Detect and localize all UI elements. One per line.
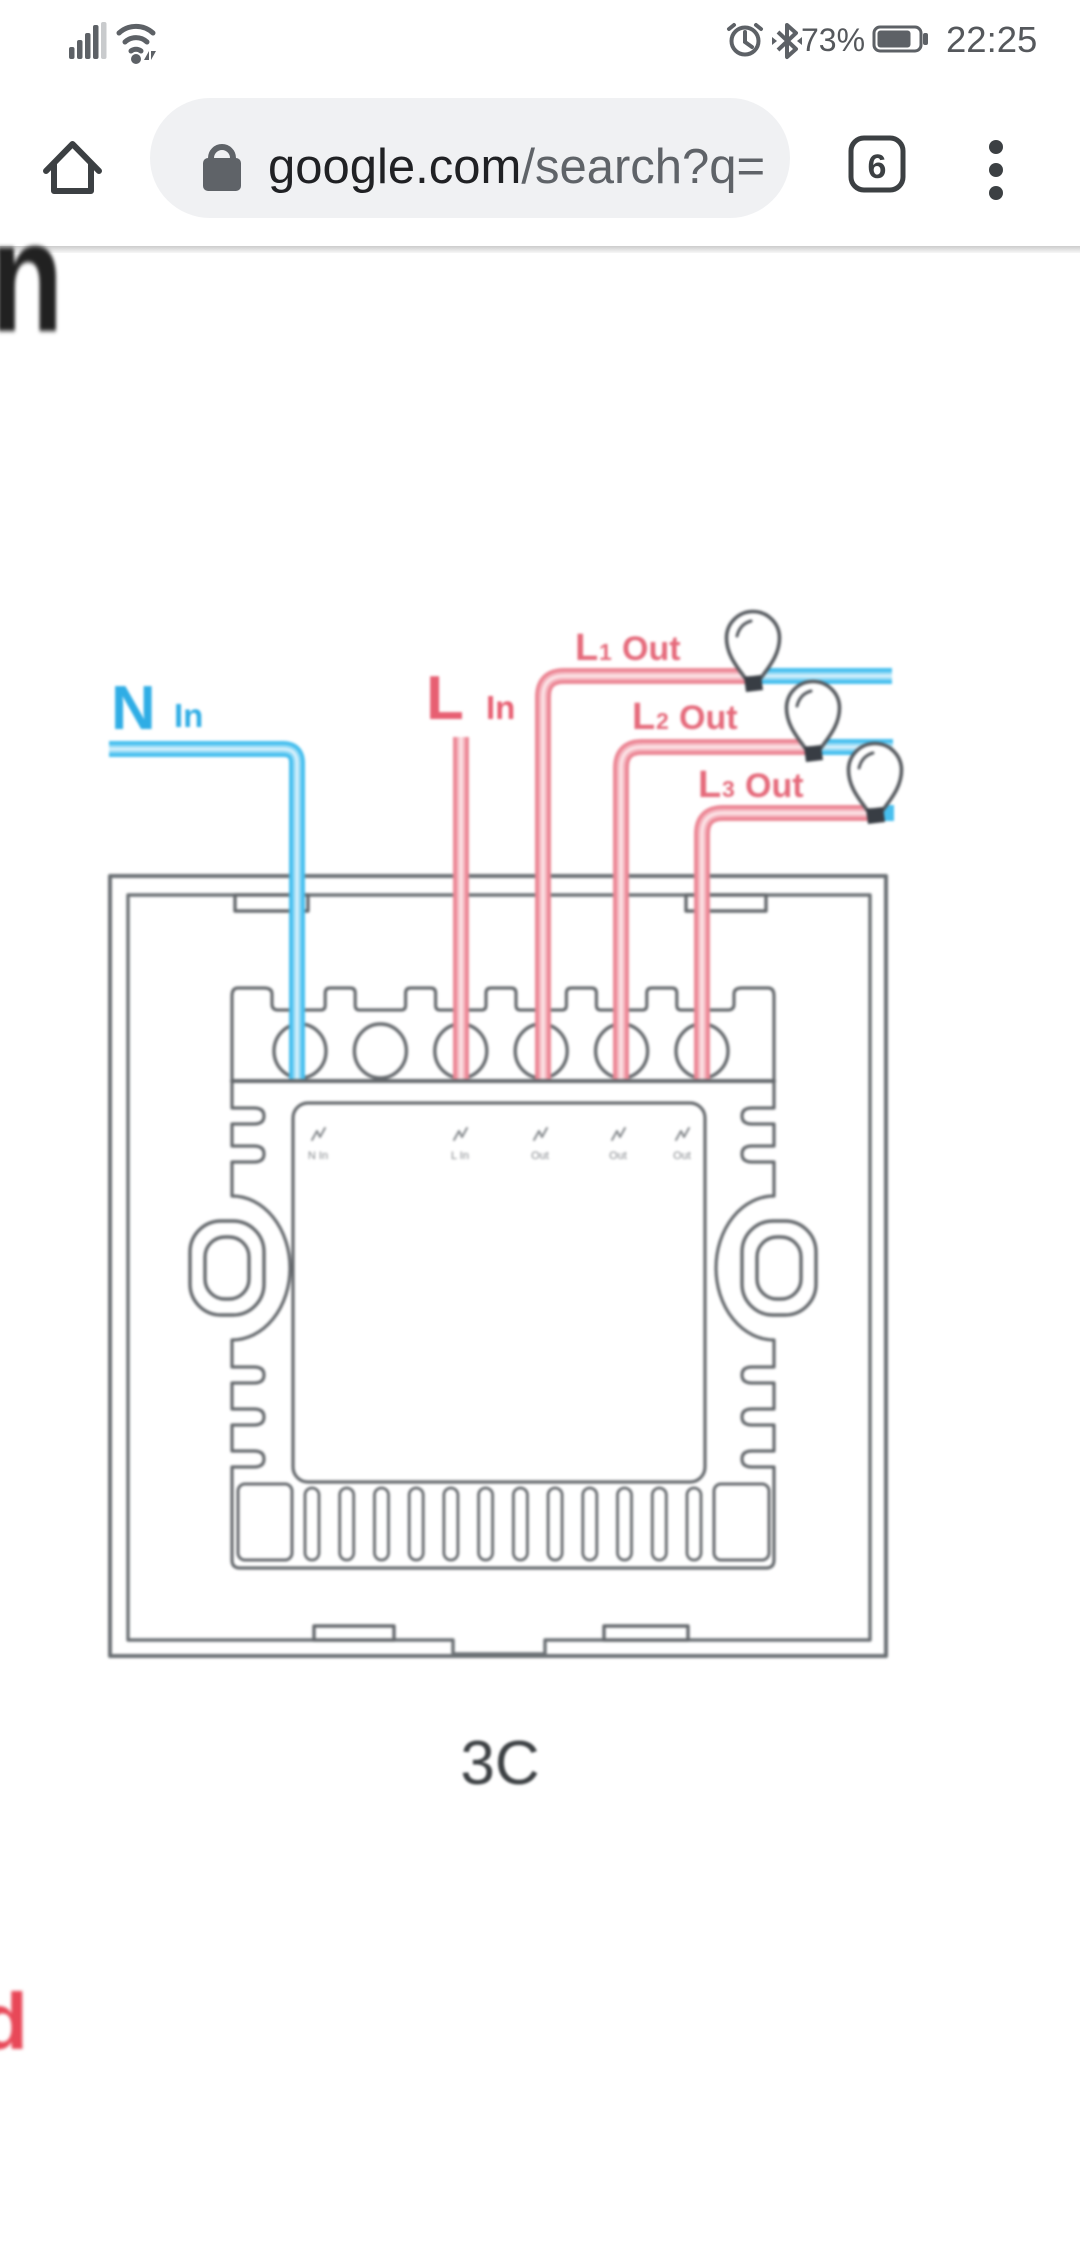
svg-text:Out: Out [673,1150,691,1162]
svg-text:L: L [698,764,721,806]
svg-text:3: 3 [722,776,735,802]
svg-text:Out: Out [531,1150,549,1162]
svg-text:In: In [174,697,203,734]
svg-text:Out: Out [622,630,681,668]
svg-text:In: In [486,689,515,726]
svg-text:L In: L In [451,1150,469,1162]
svg-text:L: L [632,696,655,738]
svg-text:L: L [575,627,598,669]
svg-text:L: L [426,664,464,733]
svg-text:3C: 3C [460,1729,539,1798]
svg-text:Out: Out [745,767,804,805]
svg-text:2: 2 [656,708,669,734]
svg-text:Out: Out [679,699,738,737]
svg-text:Out: Out [609,1150,627,1162]
svg-text:1: 1 [599,639,612,665]
svg-text:N In: N In [308,1150,328,1162]
svg-text:N: N [111,674,156,743]
